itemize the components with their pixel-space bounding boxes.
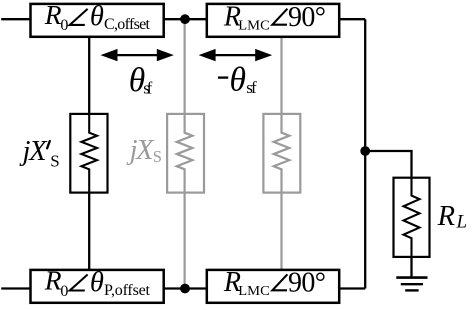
svg-text:90°: 90° — [288, 2, 326, 33]
svg-text:jX: jX — [126, 135, 156, 166]
svg-text:LMC: LMC — [238, 283, 269, 298]
svg-text:θ: θ — [230, 61, 246, 98]
svg-text:R: R — [44, 265, 62, 296]
svg-text:0: 0 — [60, 283, 68, 300]
svg-text:L: L — [456, 212, 468, 233]
svg-text:P,offset: P,offset — [104, 282, 151, 299]
svg-text:0: 0 — [60, 17, 68, 34]
svg-text:LMC: LMC — [238, 18, 269, 33]
svg-text:sf: sf — [143, 79, 152, 98]
svg-text:R: R — [44, 0, 62, 30]
svg-text:S: S — [50, 151, 59, 170]
svg-text:θ: θ — [90, 267, 104, 298]
svg-text:jX: jX — [19, 136, 49, 167]
svg-text:R: R — [437, 201, 455, 232]
svg-text:S: S — [153, 147, 162, 166]
svg-text:C,offset: C,offset — [104, 16, 151, 33]
svg-text:θ: θ — [90, 1, 104, 32]
svg-text:sf: sf — [246, 78, 257, 97]
svg-text:90°: 90° — [288, 267, 326, 298]
